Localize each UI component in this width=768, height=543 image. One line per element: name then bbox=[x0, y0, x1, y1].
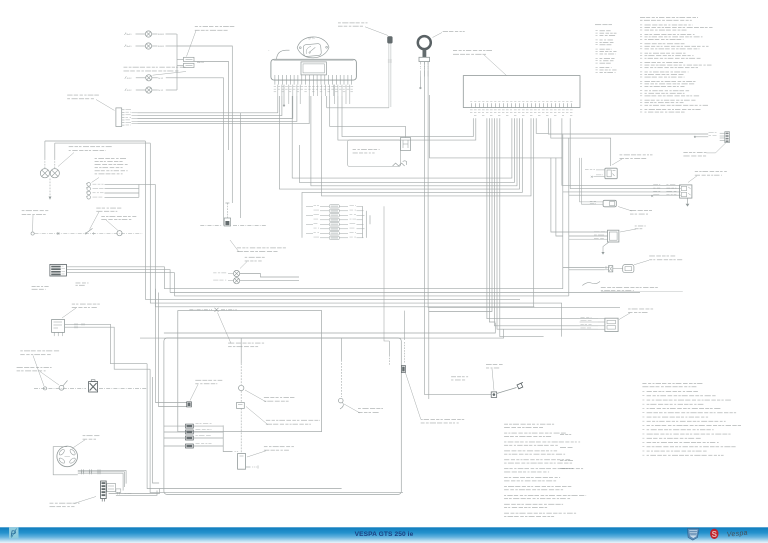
lamp L1 with leads bbox=[125, 31, 177, 37]
relay Rle11 body bbox=[184, 57, 205, 67]
connector CN6 bbox=[605, 318, 618, 331]
relay R2 bbox=[653, 185, 692, 199]
wire bus A bbox=[45, 140, 145, 142]
wire fuel drop2 bbox=[240, 391, 242, 403]
wire LB5 bbox=[164, 323, 495, 333]
connector CN1 7-pin bbox=[116, 108, 131, 127]
wire relay4 in2 bbox=[569, 235, 608, 237]
wire ECU w14 bbox=[322, 96, 532, 196]
note side stand bbox=[406, 373, 465, 423]
wire ECU w15 bbox=[533, 118, 535, 307]
wire antenna return bbox=[327, 107, 389, 109]
wire B2 out1 bbox=[65, 323, 148, 364]
notes block right bbox=[642, 383, 741, 455]
connector CN3 stubs bbox=[590, 201, 603, 204]
wire stand drop2 bbox=[403, 311, 405, 340]
sensor lambda bbox=[339, 398, 344, 409]
wire ECU w7 bbox=[497, 118, 580, 329]
note starter bbox=[17, 367, 59, 385]
wire CN3 bus bbox=[580, 158, 596, 202]
note C5 bbox=[683, 143, 726, 157]
wire relay input bbox=[177, 58, 184, 60]
frame switch box bbox=[348, 140, 401, 167]
wire antitheft top bbox=[44, 141, 46, 159]
key stem bbox=[423, 50, 427, 58]
wire coil feed2 bbox=[428, 62, 620, 308]
spark plug bbox=[517, 382, 523, 389]
wire relay output bbox=[194, 62, 229, 151]
key pin gnd bbox=[420, 77, 422, 89]
relay R1 bbox=[605, 168, 617, 179]
note starter sw bbox=[20, 351, 59, 387]
connector stack ST8 bbox=[306, 205, 365, 240]
wire bus B drop bbox=[150, 143, 561, 337]
wire ECU w11 bbox=[311, 96, 517, 186]
wire right v4 bbox=[556, 158, 563, 236]
switch starter bbox=[59, 381, 67, 391]
wire kick squiggle bbox=[582, 281, 600, 285]
wire relay4 in3b bbox=[569, 238, 608, 240]
ECU body bbox=[463, 76, 580, 108]
note twin coil bbox=[240, 257, 265, 269]
connector fuel bbox=[237, 403, 245, 409]
wire fuel drop bbox=[240, 338, 242, 363]
relay R4 bbox=[594, 230, 619, 242]
wire ECU w8 bbox=[500, 118, 544, 336]
node horn start bbox=[31, 232, 34, 235]
wire fuse bus bbox=[138, 184, 140, 197]
component twin coil bbox=[213, 270, 240, 283]
wire pump ground bbox=[246, 466, 251, 468]
frame engine outer bbox=[164, 338, 401, 494]
wire ST8 drop bbox=[384, 206, 389, 341]
lamp L3 with leads bbox=[125, 75, 177, 81]
hook symbol bbox=[403, 161, 407, 165]
wire lamp3 feed bbox=[177, 78, 224, 226]
wire C5 in2 bbox=[694, 136, 708, 138]
note antenna bbox=[338, 23, 388, 36]
alternator stator bbox=[57, 446, 78, 467]
fuse group F1-F4 bbox=[86, 183, 139, 200]
legend list B bbox=[640, 17, 713, 112]
note horn switch bbox=[90, 208, 122, 230]
wire relay2 in4 bbox=[569, 194, 681, 196]
note ECU bbox=[453, 50, 506, 75]
wire bus B bbox=[55, 142, 151, 144]
note fuel conn bbox=[246, 407, 320, 425]
key connector bbox=[419, 57, 430, 61]
sensor fuel level bbox=[239, 385, 244, 390]
switch horn button bbox=[85, 228, 94, 234]
lamp L2 with leads bbox=[125, 43, 177, 49]
logo S badge bbox=[710, 529, 718, 539]
svg-text:VESPA GTS 250 ie: VESPA GTS 250 ie bbox=[355, 531, 414, 538]
wire antitheft dash bbox=[44, 159, 46, 169]
ECU pin labels bbox=[470, 110, 573, 116]
note right long bbox=[601, 287, 683, 292]
wire ECU w17 bbox=[548, 118, 708, 134]
connector SB bbox=[187, 402, 192, 407]
svg-text:R.B11: R.B11 bbox=[158, 34, 165, 36]
notes block bottom bbox=[504, 424, 586, 517]
relay R1 stubs bbox=[585, 169, 605, 177]
note plug bbox=[451, 376, 468, 380]
wire stand drop1 bbox=[388, 341, 390, 355]
legend list A bbox=[595, 24, 617, 72]
ground wire4 mark bbox=[651, 195, 653, 197]
svg-text:N.12: N.12 bbox=[158, 90, 163, 92]
wire LB3 bbox=[174, 295, 568, 297]
wire ECU w1 bbox=[342, 96, 473, 137]
title bar bbox=[0, 527, 768, 543]
wire ECU w13 bbox=[302, 118, 522, 206]
edge labels right bbox=[560, 434, 573, 469]
wire bundle v4 bbox=[156, 289, 187, 403]
battery fuse box bbox=[50, 264, 67, 276]
note battery right bbox=[76, 283, 89, 286]
wire battery 3 bbox=[66, 273, 174, 296]
note fuel pump bbox=[247, 446, 294, 457]
ground arrow lamps bbox=[49, 197, 52, 200]
fuel pump body bbox=[238, 454, 246, 470]
wire twin coil out bbox=[240, 274, 299, 278]
svg-text:N.12: N.12 bbox=[127, 90, 132, 92]
wire ST8 bus right bbox=[362, 206, 364, 238]
ground R2 bbox=[686, 198, 690, 207]
wire lamp pair down bbox=[49, 179, 51, 197]
note switch box bbox=[353, 149, 380, 153]
wire center dashline bbox=[200, 225, 222, 227]
note CN3 bbox=[618, 207, 652, 215]
svg-text:N.12: N.12 bbox=[158, 78, 163, 80]
wire LB2 bbox=[170, 292, 640, 294]
wire ST8 drop2 bbox=[387, 211, 405, 345]
note lamp pair bbox=[58, 146, 112, 166]
wire map in1 bbox=[563, 267, 605, 269]
note R1 bbox=[612, 155, 653, 166]
note fuse text block bbox=[92, 158, 128, 183]
wire CN4 bus bbox=[223, 425, 232, 451]
note key bbox=[433, 31, 465, 37]
cluster pin labels bbox=[274, 86, 353, 92]
wire H box feed bbox=[330, 96, 406, 138]
note battery left bbox=[32, 286, 49, 290]
gauge left ear bbox=[277, 50, 290, 59]
logo shield bbox=[688, 529, 700, 541]
wire ECU w12 bbox=[279, 96, 519, 189]
wire battery 2 bbox=[66, 270, 170, 293]
note relay leader bbox=[187, 26, 235, 56]
svg-text:N.12: N.12 bbox=[127, 78, 132, 80]
wire LB6 bbox=[140, 329, 504, 338]
key ring bbox=[418, 36, 431, 49]
note CN1 label bbox=[67, 95, 114, 111]
wire battery 1 bbox=[66, 267, 164, 289]
wire right v2 bbox=[568, 138, 570, 296]
wire ST8 left bus bbox=[301, 206, 303, 238]
wire bus C drop bbox=[155, 184, 534, 306]
wire ECU w6 bbox=[495, 118, 580, 326]
gauge speedometer icon bbox=[297, 37, 329, 58]
wire ECU w19 bbox=[562, 118, 681, 185]
wire relay2 in3 bbox=[563, 191, 681, 193]
wire starter line bbox=[34, 387, 86, 389]
svg-text:R.B11: R.B11 bbox=[158, 46, 165, 48]
cluster pin row bbox=[275, 75, 352, 85]
wire coil feed bbox=[425, 62, 492, 395]
frame engine inner bbox=[178, 311, 322, 432]
note CN4 bbox=[190, 380, 222, 401]
sensor MAP bbox=[605, 265, 634, 273]
wire antitheft top2 bbox=[54, 143, 56, 158]
wire relay input 2 bbox=[177, 64, 184, 66]
wire ECU w10 bbox=[299, 118, 514, 182]
connector B2 body bbox=[52, 320, 65, 333]
note clutch bbox=[218, 313, 265, 348]
svg-text:Ne11: Ne11 bbox=[127, 46, 133, 48]
switch zigzag bbox=[393, 163, 405, 166]
note lamps header bbox=[124, 67, 187, 75]
wire antenna pair bbox=[388, 43, 392, 108]
junction X horn bbox=[57, 232, 59, 234]
frame ecu-right corner bbox=[430, 95, 563, 158]
wire lamp bus vertical bbox=[176, 34, 178, 90]
relay H box bbox=[401, 138, 411, 151]
note center1 bbox=[230, 240, 286, 252]
cluster wire stubs bbox=[278, 85, 350, 104]
wire map in2 bbox=[569, 269, 605, 271]
note coil bbox=[486, 364, 503, 390]
note regulator bbox=[50, 497, 97, 508]
wire ECU w2 bbox=[338, 96, 476, 140]
key pins bbox=[420, 62, 428, 77]
wire bus A drop bbox=[145, 141, 520, 299]
dashboard cluster body bbox=[271, 59, 357, 80]
wire bundle v2 bbox=[150, 369, 403, 492]
ECU pins bbox=[470, 101, 572, 107]
svg-text:S: S bbox=[712, 530, 718, 539]
note horn bbox=[101, 216, 136, 231]
component immo led bbox=[224, 203, 230, 226]
wire R4 below bbox=[603, 242, 609, 252]
wire bundle v5 bbox=[159, 293, 187, 407]
lamp position pair bbox=[40, 169, 59, 178]
component horn bbox=[117, 231, 122, 236]
connector stack CN4 bbox=[164, 423, 223, 448]
wire bus drop bbox=[240, 113, 242, 218]
wire lambda drop bbox=[341, 338, 343, 360]
switch side stand bbox=[401, 366, 405, 373]
note R4 bbox=[620, 226, 646, 232]
wire ECU w20 bbox=[570, 118, 681, 188]
node starter start bbox=[43, 387, 46, 390]
wire ECU w4 bbox=[489, 118, 495, 322]
lamp L4 with leads bbox=[125, 87, 177, 93]
note alternator bbox=[72, 435, 99, 448]
wire right v1 bbox=[562, 135, 564, 289]
note B2 bbox=[62, 304, 100, 318]
wire right v3 bbox=[551, 158, 563, 232]
regulator aux blocks bbox=[107, 484, 132, 494]
antenna immobilizer bbox=[388, 37, 393, 44]
starter motor bbox=[89, 380, 98, 392]
wire ECU w3 bbox=[487, 118, 580, 319]
wire ECU w18 bbox=[551, 118, 611, 166]
regulator body bbox=[101, 481, 107, 502]
wire bundle v3 bbox=[153, 377, 160, 483]
wire clutch line bbox=[189, 309, 212, 311]
wire regulator out bbox=[109, 489, 160, 494]
wire harness CN1-cluster bbox=[132, 96, 310, 124]
frame coil box bbox=[428, 308, 430, 399]
connector CN3 bbox=[603, 200, 616, 207]
ignition coil bbox=[491, 392, 497, 398]
wire LB1 bbox=[164, 288, 562, 290]
wire lamp2 feed bbox=[177, 46, 232, 203]
wire HT lead bbox=[497, 388, 517, 394]
wire alt down bbox=[125, 470, 127, 483]
junction X clutch bbox=[215, 308, 219, 312]
wire relay4 in1 bbox=[563, 231, 608, 233]
wire fuel drop3 bbox=[240, 408, 242, 453]
wire ECU w16 bbox=[536, 118, 548, 133]
note CN6 bbox=[619, 309, 653, 320]
logo P square bbox=[9, 528, 19, 539]
connector C5 bbox=[709, 132, 730, 143]
note R2 bbox=[688, 171, 727, 182]
note MAP bbox=[634, 256, 682, 265]
wire horn line bbox=[35, 233, 143, 235]
cluster ground stub bbox=[283, 85, 285, 107]
wire B2 out2 bbox=[65, 326, 151, 369]
note lambda bbox=[344, 404, 383, 413]
wire ECU w5 bbox=[429, 118, 492, 311]
note fuel sensor bbox=[245, 390, 294, 402]
wire bundle v1 bbox=[147, 364, 342, 489]
alternator frame bbox=[53, 447, 78, 475]
note horn left bbox=[22, 210, 49, 231]
svg-text:Ne11: Ne11 bbox=[127, 34, 133, 36]
wire alternator 3phase bbox=[78, 469, 126, 474]
wire ECU w9 bbox=[292, 96, 512, 178]
connector B2 pins bbox=[54, 332, 62, 336]
wire CN6 leads bbox=[580, 317, 605, 329]
